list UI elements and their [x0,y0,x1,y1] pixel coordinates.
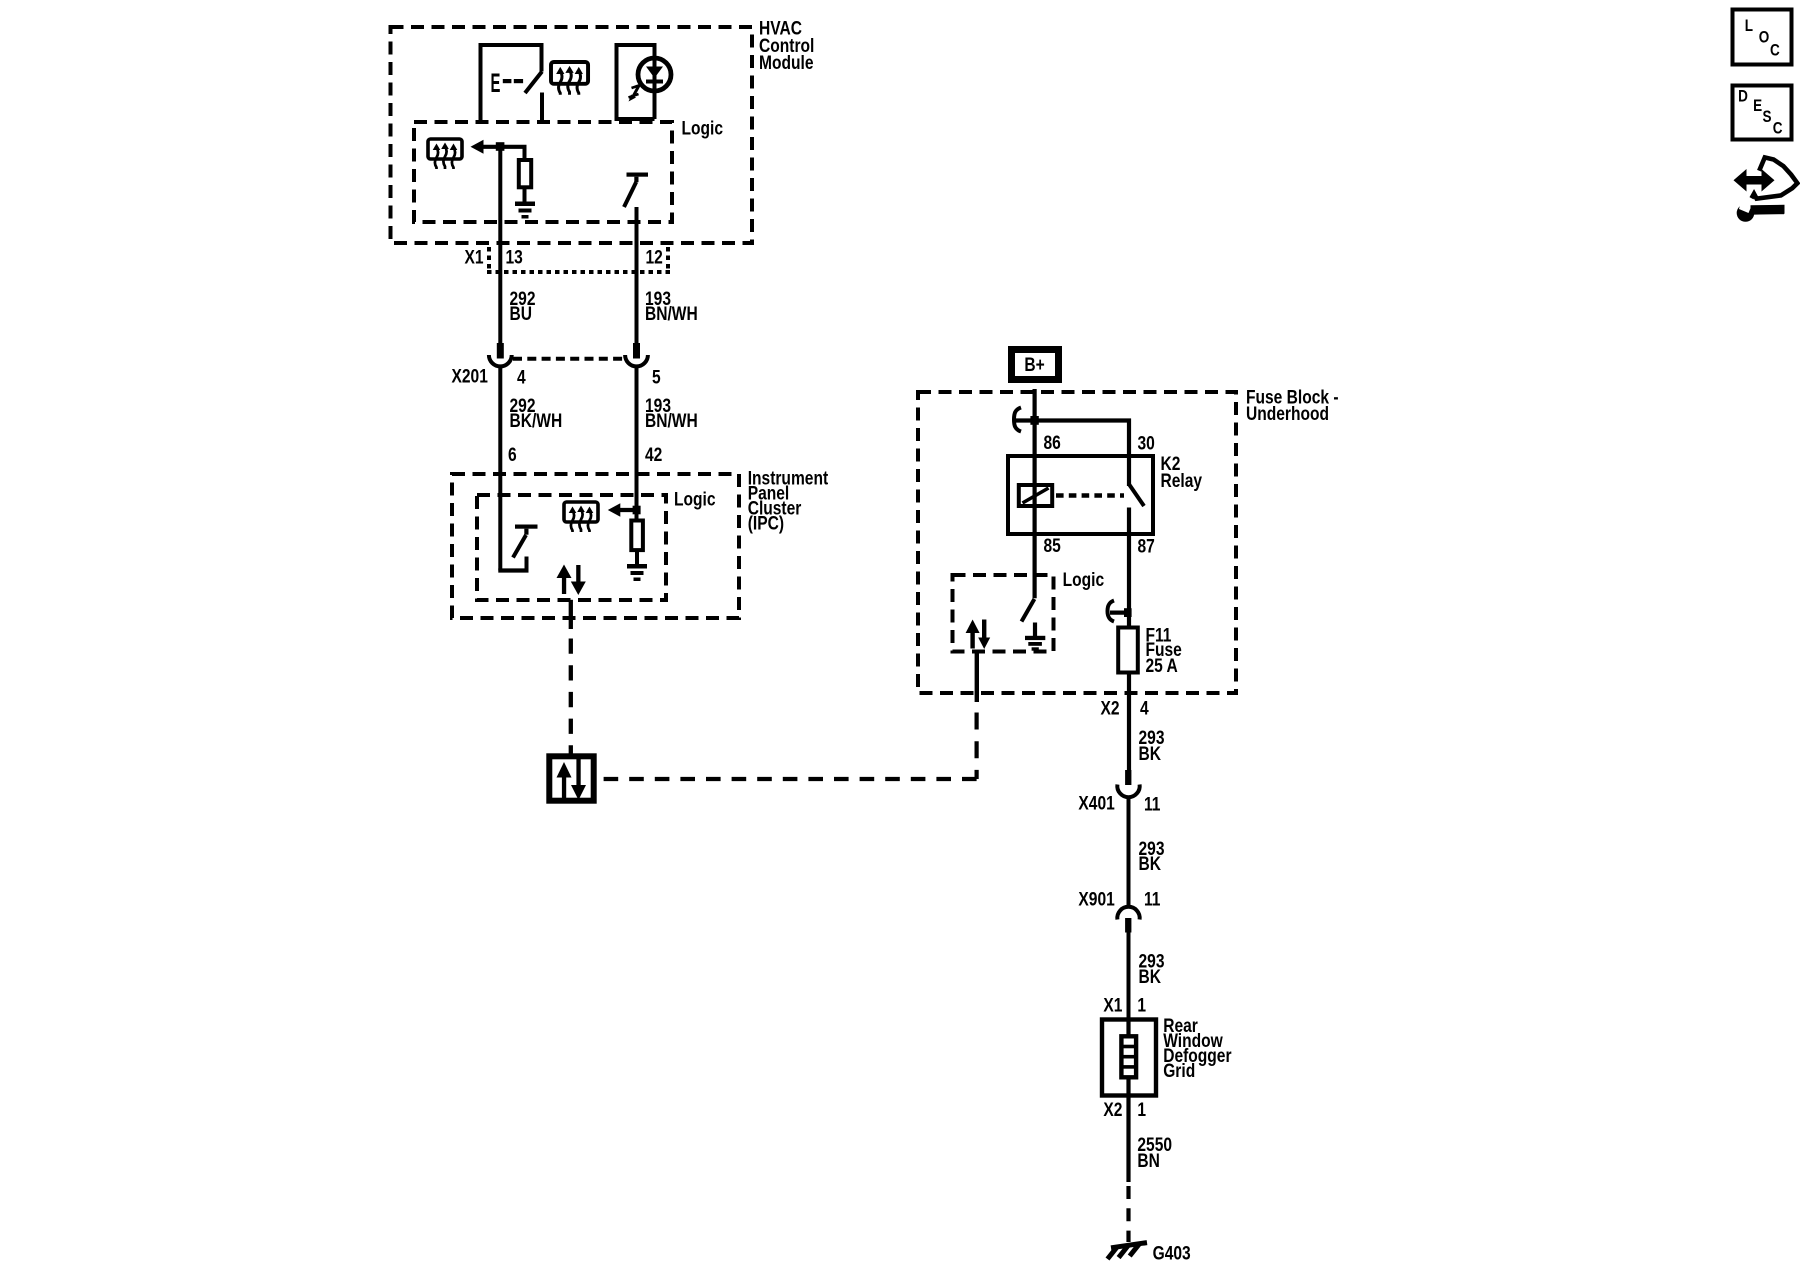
wire X401 to X901 [1127,797,1131,907]
X1 pin 1 labels (grid top) [1103,994,1146,1016]
svg-text:X2: X2 [1101,697,1120,719]
relay dashed actuation link [1056,493,1124,498]
serial data arrows icon (IPC logic) [557,565,586,596]
LED indicator U1 box [617,45,655,121]
wire label 193 BN/WH (upper) [645,288,698,325]
svg-text:X2: X2 [1103,1098,1122,1120]
wire pin 12 (HVAC to X1) [635,207,639,344]
IPC label [748,467,829,534]
dashed serial data wire (horizontal) [598,777,977,781]
Logic label (HVAC) [682,117,724,139]
Fuse Block label [1246,386,1339,424]
switch S4 blade (relay control) [1022,599,1035,622]
svg-text:BK: BK [1139,742,1162,764]
wiring tool icon (outline arrow) [1752,157,1798,198]
IPC pin labels 6 and 42 [508,444,662,466]
svg-text:Relay: Relay [1161,469,1203,491]
defogger icon (IPC logic) [564,502,598,532]
svg-text:4: 4 [1140,697,1149,719]
svg-text:C: C [1770,41,1780,60]
svg-text:Logic: Logic [1063,569,1105,591]
svg-text:Underhood: Underhood [1246,403,1329,425]
K2 Relay label [1161,453,1203,492]
serial data arrows icon (node box) [557,759,587,800]
F11 Fuse 25 A label [1146,624,1183,676]
wire through defogger grid [1126,1020,1130,1183]
wire label 293 BK (3) [1139,950,1165,987]
svg-text:11: 11 [1144,888,1161,910]
svg-text:86: 86 [1044,432,1062,454]
wire stub below IPC arrows [569,600,573,629]
Logic box (fuse block) [953,575,1054,652]
svg-text:X1: X1 [465,246,484,268]
resistor R1 branch [519,145,531,203]
fuse F11 [1118,628,1138,673]
svg-text:L: L [1745,17,1753,36]
svg-text:42: 42 [645,444,662,466]
dashed wire to ground G403 [1126,1186,1130,1242]
wiring tool icon (double arrow) [1734,169,1775,192]
svg-text:13: 13 [506,246,524,268]
terminal clip at fuse [1108,601,1132,622]
connector X201 terminal pin 5 [625,343,648,366]
svg-text:BK/WH: BK/WH [510,410,563,432]
X201 labels [452,365,661,388]
wiring tool icon (wrench) [1737,202,1785,222]
defogger grid element [1121,1036,1136,1077]
relay coil [1019,483,1052,508]
ground (HVAC logic) [515,202,535,219]
Rear Window Defogger Grid box [1102,1020,1156,1096]
Instrument Panel Cluster box [452,474,739,618]
wire 193 BN/WH (X201 to IPC) [635,368,639,521]
svg-text:BU: BU [510,303,532,325]
wire label 292 BU [510,288,536,325]
B+ power symbol [1012,350,1059,380]
svg-text:S: S [1763,108,1772,127]
svg-text:BN: BN [1137,1150,1159,1172]
svg-text:C: C [1773,119,1783,138]
relay switch blade [1129,485,1144,507]
svg-text:X1: X1 [1103,994,1122,1016]
svg-text:25 A: 25 A [1146,655,1179,677]
wire stub below fuse logic arrows [975,650,979,702]
switch S2 (pin 12) [624,173,648,208]
svg-text:X901: X901 [1078,888,1115,910]
LOC icon box [1733,10,1792,65]
resistor R2 (IPC) [631,521,643,565]
ground (IPC logic) [627,564,647,581]
connector X901 [1117,907,1139,933]
svg-text:87: 87 [1138,535,1155,557]
wire label 292 BK/WH [510,395,563,432]
svg-text:Logic: Logic [682,117,724,139]
HVAC Control Module box [391,27,753,243]
svg-text:X201: X201 [452,365,489,387]
Logic box (IPC) [477,495,666,600]
svg-text:BN/WH: BN/WH [645,410,698,432]
arrow to defogger icon (IPC) [608,503,641,517]
X401 labels [1078,792,1160,815]
DESC icon box [1733,86,1792,140]
Logic label (fuse block) [1063,569,1105,591]
relay K2 box [1008,456,1153,534]
svg-text:1: 1 [1137,1098,1146,1120]
pin labels 86 30 [1044,432,1155,454]
svg-text:O: O [1759,28,1770,47]
serial data arrows icon (fuse block logic) [966,620,991,650]
wire B+ to relay coil pin 86/85 [1032,389,1036,598]
pin labels 85 87 [1044,534,1155,556]
svg-text:B+: B+ [1024,354,1044,376]
svg-text:Module: Module [759,52,814,74]
svg-text:6: 6 [508,444,517,466]
svg-text:12: 12 [646,246,663,268]
wire label 2550 BN [1137,1134,1172,1172]
svg-text:Logic: Logic [674,488,716,510]
svg-text:D: D [1738,87,1748,106]
svg-text:5: 5 [652,366,661,388]
svg-text:G403: G403 [1153,1242,1191,1264]
wire label 193 BN/WH (lower) [645,395,698,432]
svg-text:1: 1 [1137,994,1146,1016]
svg-text:11: 11 [1144,793,1161,815]
connector X1 dotted box [487,247,670,274]
svg-text:(IPC): (IPC) [748,512,784,534]
Rear Window Defogger Grid label [1163,1015,1232,1082]
wire X901 to defogger grid [1127,932,1131,1020]
branch wire to pin 30 [1016,416,1131,486]
wire label 293 BK (2) [1139,838,1165,875]
svg-text:BN/WH: BN/WH [645,303,698,325]
ground G403 symbol [1108,1243,1148,1259]
HVAC Control Module label [759,17,814,73]
svg-text:30: 30 [1138,432,1155,454]
svg-text:BK: BK [1139,966,1162,988]
X2 pin 4 labels [1101,697,1149,719]
dashed serial data wire (IPC down) [569,639,573,755]
G403 label [1153,1242,1191,1264]
X2 pin 1 labels (grid bottom) [1103,1098,1146,1120]
svg-text:E: E [1753,97,1762,116]
svg-text:85: 85 [1044,534,1062,556]
svg-text:BK: BK [1139,853,1162,875]
Logic box (HVAC) [414,122,672,222]
svg-text:4: 4 [517,366,526,388]
serial data node box [549,756,593,800]
terminal clip at B+ branch [1014,408,1021,432]
wire pin 13 (HVAC to X1) [498,147,502,344]
wire 292 BK/WH (X201 to IPC) [498,368,502,571]
arrow to defogger icon [471,140,527,154]
LED diode symbol [629,47,672,119]
Logic label (IPC) [674,488,716,510]
svg-text:X401: X401 [1078,792,1115,814]
connector X201 terminal pin 4 [489,343,512,366]
connector X401 [1117,770,1139,797]
switch S1 (E-driver switch in HVAC) [481,45,543,122]
X201 dashed link [513,357,623,361]
defogger indicator icon (HVAC top) [551,62,588,95]
defogger icon (HVAC logic) [428,139,462,169]
Fuse Block Underhood box [918,392,1236,693]
dashed serial data wire (vertical to fuse block) [974,713,978,780]
svg-text:E: E [491,67,501,98]
wire label 293 BK (1) [1139,727,1165,765]
wire pin 87 down through fuse [1127,508,1131,771]
switch S3 (pin 6 in IPC) [498,525,537,571]
X1 pin labels [465,246,663,268]
svg-text:Grid: Grid [1163,1060,1195,1082]
ground (fuse block logic) [1025,623,1045,651]
X901 labels [1078,888,1160,910]
